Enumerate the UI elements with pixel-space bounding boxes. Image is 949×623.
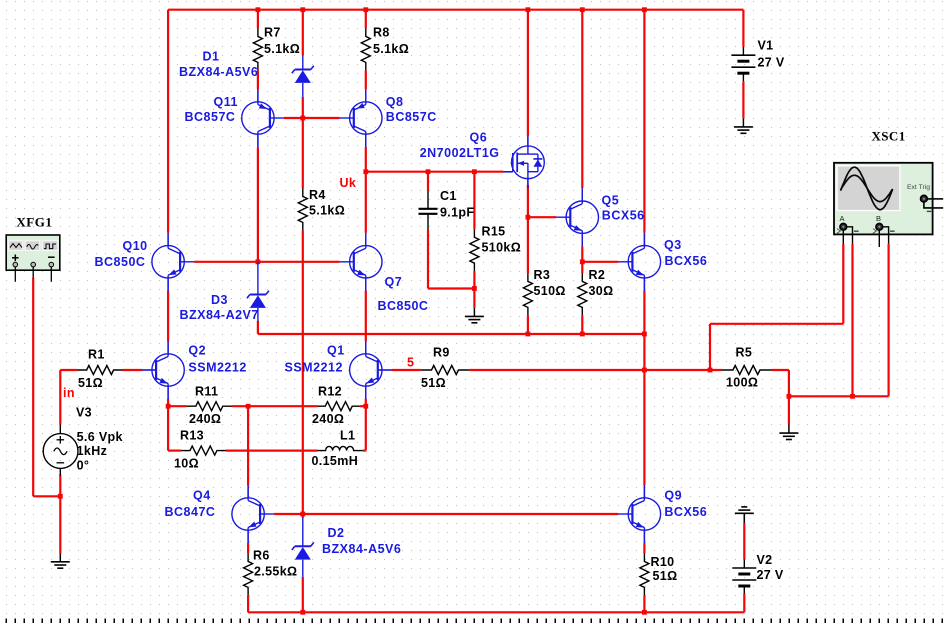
wire Q1 emitter column to L1 [365, 399, 367, 451]
resistor R15 510k [470, 229, 479, 271]
transistor Q2 SSM2212 [142, 369, 156, 371]
battery V1 27V [742, 47, 744, 55]
svg-text:BC847C: BC847C [165, 505, 216, 519]
wire R9 to output node and R5 [469, 369, 721, 371]
svg-text:2N7002LT1G: 2N7002LT1G [420, 146, 500, 160]
svg-text:BC857C: BC857C [185, 110, 236, 124]
resistor R3 510 [523, 273, 532, 315]
svg-text:5.1kΩ: 5.1kΩ [373, 42, 409, 56]
inductor L1 0.15mH [318, 446, 363, 450]
svg-text:Q7: Q7 [385, 275, 403, 289]
svg-text:R2: R2 [589, 268, 606, 282]
wire V3 minus to ground [59, 475, 61, 554]
capacitor C1 9.1pF [427, 191, 429, 209]
svg-text:R6: R6 [253, 549, 270, 563]
transistor Q1 SSM2212 [365, 341, 367, 354]
wire scope ground bus [789, 395, 889, 397]
svg-text:XFG1: XFG1 [16, 214, 52, 229]
wire Q5 collector to rail [581, 10, 583, 188]
svg-text:510Ω: 510Ω [534, 284, 566, 298]
svg-text:V2: V2 [757, 553, 773, 567]
wire Q5 emitter down [581, 246, 583, 273]
wire Q6 source down to R3 [527, 185, 529, 273]
svg-text:Ext Trig: Ext Trig [907, 184, 930, 191]
svg-text:100Ω: 100Ω [726, 376, 758, 390]
wire Q10 emitter to Q2 collector [167, 291, 169, 342]
wire Q10 base to Q7 base [194, 261, 340, 263]
svg-text:D3: D3 [211, 293, 228, 307]
wire R2 bottom [581, 315, 583, 334]
junction dots [256, 7, 261, 12]
svg-text:Uk: Uk [340, 176, 357, 190]
svg-text:9.1pF: 9.1pF [440, 206, 474, 220]
wire R5 right to ground branch [771, 369, 789, 371]
svg-text:1kHz: 1kHz [77, 444, 108, 458]
svg-text:BZX84-A5V6: BZX84-A5V6 [179, 65, 258, 79]
svg-text:in: in [63, 386, 75, 400]
svg-text:Q9: Q9 [664, 489, 682, 503]
svg-text:5: 5 [407, 356, 414, 370]
svg-text:L1: L1 [340, 429, 355, 443]
svg-text:R12: R12 [318, 385, 342, 399]
wire D3 anode rail [257, 321, 259, 334]
svg-text:Q3: Q3 [664, 238, 682, 252]
wire Uk net horizontal [366, 171, 503, 173]
wire C1 to R15 bottom link [428, 287, 474, 289]
svg-text:R1: R1 [88, 348, 105, 362]
svg-text:R5: R5 [736, 346, 753, 360]
wire V1 branch [742, 10, 744, 47]
wire Q4 base to Q9 base [274, 513, 618, 515]
wire Q11 base to Q8 base [284, 117, 340, 119]
svg-text:R10: R10 [651, 555, 675, 569]
svg-text:A: A [840, 214, 845, 223]
resistor R10 51 [640, 553, 649, 595]
transistor Q7 BC850C [365, 233, 367, 246]
battery V2 27V [743, 560, 745, 569]
svg-text:R7: R7 [264, 26, 281, 40]
svg-text:Q4: Q4 [193, 489, 211, 503]
svg-text:0°: 0° [77, 459, 90, 473]
wire C1 branch [427, 172, 429, 191]
wire scope B- down [887, 244, 889, 396]
resistor R12 240 [318, 402, 360, 411]
wire Q4 collector up to R11/R12 node [247, 406, 249, 485]
wire R7 to rail and to Q11 emitter [257, 10, 259, 29]
svg-text:D2: D2 [328, 526, 345, 540]
resistor R5 100 [722, 366, 772, 375]
wire R3 bottom [527, 315, 529, 334]
svg-text:0.15mH: 0.15mH [312, 454, 359, 468]
svg-text:BCX56: BCX56 [602, 208, 645, 222]
wire Q9 emitter to R10 [643, 543, 645, 554]
transistor Q8 BC857C pnp [365, 89, 367, 102]
ground under R15 [473, 308, 475, 317]
wire Q6 source to Q5 base [528, 216, 556, 218]
wire R8 to rail and to Q8 emitter [365, 10, 367, 29]
ground under R5 / scope bus [788, 425, 790, 434]
transistor Q9 BCX56 [643, 485, 645, 498]
svg-text:51Ω: 51Ω [653, 569, 678, 583]
svg-text:2.55kΩ: 2.55kΩ [254, 565, 297, 579]
resistor R4 5.1k [298, 188, 307, 230]
svg-text:R15: R15 [482, 225, 506, 239]
svg-text:10Ω: 10Ω [174, 456, 199, 470]
svg-text:V1: V1 [758, 39, 774, 53]
svg-text:240Ω: 240Ω [189, 412, 221, 426]
wire top power rail [168, 9, 743, 11]
wire scope channel A+ to output [842, 244, 844, 324]
wire R11 row [168, 405, 187, 407]
wire Q1 base to R9 [392, 369, 421, 371]
svg-text:BC857C: BC857C [386, 110, 437, 124]
function generator XFG1 [6, 235, 60, 282]
ground under V3 [59, 553, 61, 562]
svg-text:R4: R4 [309, 188, 326, 202]
wire scope A- down [851, 244, 853, 396]
wire V2 branch [743, 523, 745, 560]
resistor R7 5.1k [253, 28, 262, 70]
AC source V3 [59, 425, 61, 434]
transistor Q5 BCX56 [581, 188, 583, 201]
wire V3 to R1 [59, 370, 61, 425]
zener D2 BZX84-A5V6 [302, 517, 304, 546]
resistor R13 10 [181, 446, 226, 455]
svg-text:Q2: Q2 [188, 344, 206, 358]
svg-text:D1: D1 [203, 50, 220, 64]
mosfet Q6 2N7002LT1G [527, 136, 529, 146]
svg-text:30Ω: 30Ω [589, 284, 614, 298]
wire R1 to Q2 base [123, 369, 143, 371]
svg-text:R8: R8 [373, 26, 390, 40]
transistor Q3 BCX56 [643, 233, 645, 246]
svg-text:Q8: Q8 [386, 95, 404, 109]
wire Q10 collector to top rail [167, 10, 169, 233]
wire Q3 emitter [643, 291, 645, 334]
wire Q11 collector down to node [257, 148, 259, 262]
wire Q6 drain to rail [527, 10, 529, 136]
svg-text:27 V: 27 V [758, 56, 785, 70]
svg-text:C1: C1 [440, 189, 457, 203]
svg-text:51Ω: 51Ω [78, 376, 103, 390]
wire R4 top [302, 118, 304, 188]
svg-text:5.6 Vpk: 5.6 Vpk [77, 430, 123, 444]
transistor Q4 BC847C [247, 485, 249, 498]
ground under V1 [742, 118, 744, 127]
wire Q4 emitter to R6 [247, 543, 249, 554]
wire D1 branch [302, 10, 304, 56]
transistor Q10 BC850C [167, 233, 169, 246]
svg-text:R13: R13 [180, 429, 204, 443]
svg-text:SSM2212: SSM2212 [188, 361, 246, 375]
wire R12 to Q1 emitter [360, 405, 366, 407]
resistor R11 240 [187, 402, 232, 411]
svg-text:5.1kΩ: 5.1kΩ [309, 204, 345, 218]
transistor Q11 BC857C pnp [257, 89, 259, 102]
svg-text:51Ω: 51Ω [421, 376, 446, 390]
wire Q8 collector / Q7 collector [365, 147, 367, 233]
svg-text:5.1kΩ: 5.1kΩ [264, 42, 300, 56]
svg-text:240Ω: 240Ω [312, 412, 344, 426]
ground V2 top (flipped) [741, 506, 747, 508]
wire R15 branch [473, 172, 475, 230]
zener D1 BZX84-A5V6 [302, 56, 304, 70]
svg-text:BC850C: BC850C [378, 299, 429, 313]
wire L1 right lead corner [363, 450, 366, 452]
wire Q9 collector column [643, 334, 645, 485]
svg-text:BZX84-A5V6: BZX84-A5V6 [322, 542, 401, 556]
svg-text:R9: R9 [433, 346, 450, 360]
wire bottom rail [248, 611, 744, 613]
wire Q5 emitter to Q3 base [582, 261, 618, 263]
svg-text:Q6: Q6 [470, 131, 488, 145]
svg-text:V3: V3 [76, 406, 92, 420]
svg-text:BCX56: BCX56 [665, 254, 708, 268]
resistor R8 5.1k [361, 28, 370, 70]
resistor R1 51 [78, 366, 123, 375]
svg-text:510kΩ: 510kΩ [482, 241, 522, 255]
wire R13 row [168, 450, 181, 452]
resistor R2 30 [578, 273, 587, 315]
svg-text:R3: R3 [534, 268, 551, 282]
svg-text:R11: R11 [195, 385, 218, 399]
wire Q3 collector to rail [643, 10, 645, 233]
svg-text:BC850C: BC850C [95, 255, 146, 269]
svg-text:BCX56: BCX56 [664, 505, 707, 519]
svg-text:BZX84-A2V7: BZX84-A2V7 [180, 308, 259, 322]
svg-text:Q10: Q10 [123, 239, 148, 253]
resistor R6 2.55k [244, 553, 253, 595]
svg-text:XSC1: XSC1 [872, 128, 906, 143]
wire D1-D2 bias column [302, 230, 304, 517]
oscilloscope XSC1 [834, 163, 943, 247]
svg-text:Q5: Q5 [602, 193, 620, 207]
svg-text:SSM2212: SSM2212 [285, 361, 343, 375]
svg-text:Q11: Q11 [214, 95, 238, 109]
resistor R9 51 [421, 366, 469, 375]
wire D2 anode to bottom rail [302, 577, 304, 612]
svg-text:Q1: Q1 [327, 344, 345, 358]
wire XFG1 output down [32, 278, 34, 496]
wire Q2 emitter down past R11 node [167, 399, 169, 451]
svg-text:B: B [876, 214, 881, 223]
wire Q7 emitter to Q1 collector [365, 291, 367, 342]
zener D3 BZX84-A2V7 [257, 262, 259, 295]
svg-text:27 V: 27 V [757, 568, 784, 582]
